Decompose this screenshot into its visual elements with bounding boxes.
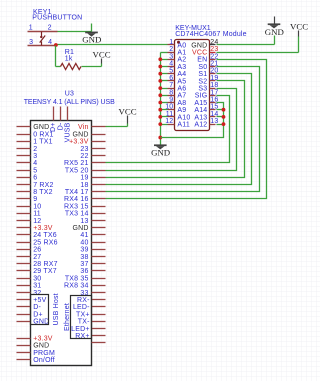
svg-text:A14: A14 (194, 107, 207, 114)
mux left pin 4 A3 (168, 61, 187, 71)
mux right pin 24 GND (191, 39, 218, 49)
U3 right pin TX4 17 (65, 189, 106, 196)
svg-text:5: 5 (33, 167, 37, 174)
svg-text:RX-: RX- (77, 297, 90, 304)
U3 right pin 39 (80, 247, 105, 254)
svg-text:29 TX7: 29 TX7 (33, 268, 57, 275)
mux right pin 14 A13 (194, 111, 218, 121)
Teensy U3 reference labels (24, 90, 115, 106)
svg-text:A15: A15 (194, 100, 207, 107)
wire resistor to VCC (82, 64, 102, 67)
wire button pin4 to mux A0 (node KEY) (56, 44, 168, 46)
U3 right pin RX8 34 (64, 283, 105, 290)
mux right pin 17 SIG (195, 89, 219, 99)
U3 right pin 38 (80, 254, 105, 261)
svg-text:1k: 1k (65, 56, 73, 63)
junction mux pin 9 on ground bus (158, 101, 162, 105)
svg-text:A9: A9 (177, 107, 186, 114)
U3 left pin 28 RX7 (17, 261, 58, 268)
svg-text:4: 4 (169, 61, 173, 68)
svg-text:S1: S1 (198, 71, 207, 78)
U3 left pin PRGM (17, 350, 56, 357)
svg-text:8: 8 (169, 89, 173, 96)
U3 right pin 13 (80, 218, 105, 225)
svg-text:4: 4 (33, 160, 37, 167)
svg-text:TX3 14: TX3 14 (65, 211, 89, 218)
svg-text:5: 5 (169, 68, 173, 75)
wire mux VCC pin23 to VCC (217, 37, 299, 53)
svg-text:2: 2 (33, 146, 37, 153)
svg-text:RX4 16: RX4 16 (64, 196, 89, 203)
mux left pin 1 A0 (168, 39, 187, 49)
U3 left pin 5 (17, 167, 38, 174)
U3 right pin 19 (80, 175, 105, 182)
U3 Ethernet pin TX+ (76, 311, 105, 318)
U3 right pin 36 (80, 268, 105, 275)
wire mux S1 to U3 pin row 8 (106, 74, 252, 185)
wire junction down to resistor R1 (56, 46, 61, 67)
svg-text:A4: A4 (177, 71, 186, 78)
mux right pin 22 EN (197, 53, 218, 63)
ground symbol top right (265, 17, 284, 37)
U3 right pin RX4 16 (64, 196, 105, 203)
mux left pin 7 A6 (168, 82, 187, 92)
U3 left pin 3 (17, 153, 38, 160)
svg-text:PUSHBUTTON: PUSHBUTTON (32, 15, 82, 22)
junction mux pin 11 on ground bus (158, 115, 162, 119)
svg-text:TX5 20: TX5 20 (65, 167, 89, 174)
U3 USB Host sub-box (31, 293, 60, 325)
U3 left pin +3.3V (17, 225, 53, 232)
svg-text:+3.3V: +3.3V (33, 225, 53, 232)
mux KEY-MUX1 reference labels (175, 25, 247, 38)
svg-text:A8: A8 (177, 100, 186, 107)
svg-text:USB Host: USB Host (53, 293, 60, 325)
wire mux S0 to U3 pin row 9 (106, 67, 260, 192)
svg-text:S2: S2 (198, 78, 207, 85)
svg-text:19: 19 (80, 175, 88, 182)
svg-text:U3: U3 (65, 90, 74, 97)
junction mux pin 3 on ground bus (158, 57, 162, 61)
U3 right pin RX5 21 (64, 160, 105, 167)
svg-text:A7: A7 (177, 93, 186, 100)
mux left pin 10 A9 (165, 104, 186, 114)
junction mux pin 12 on ground bus (158, 122, 162, 126)
U3 left pin 25 RX6 (17, 239, 58, 246)
svg-text:A11: A11 (177, 122, 190, 129)
svg-text:+3.3V: +3.3V (69, 139, 89, 146)
svg-text:GND: GND (151, 147, 170, 157)
svg-text:30: 30 (33, 275, 41, 282)
wire mux EN to U3 pin row 10 (106, 60, 267, 199)
svg-text:36: 36 (80, 268, 88, 275)
U3 left pin 6 (17, 175, 38, 182)
svg-text:8 TX2: 8 TX2 (33, 189, 53, 196)
svg-text:1: 1 (169, 39, 173, 46)
pushbutton pin number 2 (48, 25, 52, 32)
mux right pin 18 S3 (198, 82, 218, 92)
U3 left pin 31 (17, 283, 42, 290)
svg-text:RX5 21: RX5 21 (64, 160, 89, 167)
mux right pin 16 A15 (194, 97, 218, 107)
svg-text:24 TX6: 24 TX6 (33, 232, 57, 239)
svg-text:9: 9 (169, 97, 173, 104)
ground symbol below mux (151, 144, 170, 157)
wire mux A15-A12 to ground bus (161, 103, 224, 138)
U3 left pin 24 TX6 (17, 232, 57, 239)
U3 right pin GND (72, 131, 105, 138)
junction mux pin 4 on ground bus (158, 65, 162, 69)
svg-text:38: 38 (80, 254, 88, 261)
svg-text:A3: A3 (177, 64, 186, 71)
U3 left pin 30 (17, 275, 42, 282)
mux left pin 12 A11 (165, 118, 190, 128)
pushbutton pin number 3 (29, 39, 33, 46)
mux left pin 3 A2 (168, 53, 187, 63)
svg-text:18: 18 (80, 182, 88, 189)
U3 top pin D- (57, 107, 64, 131)
junction mux pin 5 on ground bus (158, 72, 162, 76)
svg-text:D-: D- (57, 122, 64, 130)
svg-text:9: 9 (33, 196, 37, 203)
power symbol VCC at resistor (93, 49, 111, 63)
U3 right pin +3.3V (69, 139, 105, 146)
svg-text:6: 6 (169, 75, 173, 82)
junction mux pin 8 on ground bus (158, 93, 162, 97)
power symbol VCC top right (290, 22, 308, 37)
mux left pin 8 A7 (168, 89, 187, 99)
U3 left pin 32 (17, 290, 42, 297)
svg-text:3: 3 (33, 153, 37, 160)
junction A12-A15 wire on ground bus (158, 136, 162, 140)
svg-text:13: 13 (80, 218, 88, 225)
U3 left pin 8 TX2 (17, 189, 53, 196)
mux KEY-MUX1 body (175, 40, 210, 131)
svg-text:7 RX2: 7 RX2 (33, 182, 53, 189)
svg-text:RX3 15: RX3 15 (64, 203, 89, 210)
U3 left pin 7 RX2 (17, 182, 54, 189)
U3 left pin 26 (17, 247, 42, 254)
svg-text:Ethernet: Ethernet (64, 303, 71, 331)
U3 USB Host pin +5V (17, 297, 47, 304)
wire button pin2 to GND (58, 24, 92, 32)
svg-text:D+: D+ (33, 311, 43, 318)
svg-text:1: 1 (29, 25, 33, 32)
junction mux pin 14 (222, 115, 226, 119)
svg-text:SIG: SIG (195, 93, 208, 100)
svg-text:GND: GND (82, 35, 101, 45)
U3 left pin On/Off (17, 357, 55, 364)
U3 USB Host pin D- (17, 304, 42, 311)
U3 Ethernet pin RX- (77, 297, 105, 304)
U3 right pin 41 (80, 232, 105, 239)
svg-text:GND: GND (33, 124, 49, 131)
mux left pin 5 A4 (168, 68, 187, 78)
mux left pin 6 A5 (168, 75, 187, 85)
U3 Ethernet pin TX- (78, 319, 106, 326)
U3 right pin 40 (80, 239, 105, 246)
mux right pin 13 A12 (194, 118, 218, 128)
wire mux S3 to U3 pin row 6 (106, 89, 237, 171)
svg-text:41: 41 (80, 232, 88, 239)
svg-text:32: 32 (33, 290, 41, 297)
mux left pin 2 A1 (168, 46, 187, 56)
svg-text:12: 12 (33, 218, 41, 225)
Teensy U3 body (31, 121, 92, 366)
pushbutton KEY1 symbol (28, 32, 58, 46)
wire mux GND pin24 to ground (217, 36, 275, 45)
svg-text:3: 3 (169, 53, 173, 60)
U3 right pin 23 (80, 146, 105, 153)
mux right pin 20 S1 (198, 68, 218, 78)
svg-text:37: 37 (80, 261, 88, 268)
U3 right pin TX8 35 (65, 275, 106, 282)
svg-text:22: 22 (80, 153, 88, 160)
svg-text:RX8 34: RX8 34 (64, 283, 89, 290)
svg-text:A12: A12 (194, 122, 207, 129)
U3 left pin 4 (17, 160, 38, 167)
svg-text:39: 39 (80, 247, 88, 254)
svg-text:25 RX6: 25 RX6 (33, 239, 58, 246)
svg-text:LED+: LED+ (71, 326, 90, 333)
junction mux pin 10 on ground bus (158, 108, 162, 112)
U3 right pin 22 (80, 153, 105, 160)
mux right pin 19 S2 (198, 75, 218, 85)
U3 top pin D+ (50, 107, 57, 133)
junction mux pin 13 (222, 122, 226, 126)
U3 left pin +3.3V (17, 336, 53, 343)
svg-text:VCC: VCC (290, 22, 308, 32)
U3 Ethernet pin RX+ (75, 333, 105, 340)
svg-text:S3: S3 (198, 86, 207, 93)
wire U3 Vin to VCC (106, 124, 128, 127)
U3 left pin 2 (17, 146, 38, 153)
svg-text:2: 2 (169, 46, 173, 53)
U3 right pin RX3 15 (64, 203, 105, 210)
U3 USB Host pin D+ (17, 311, 43, 318)
svg-text:A1: A1 (177, 50, 186, 57)
svg-text:6: 6 (33, 175, 37, 182)
svg-text:TX+: TX+ (76, 311, 90, 318)
resistor R1 (61, 63, 82, 69)
mux left pin 9 A8 (168, 97, 187, 107)
U3 left pin 10 (17, 203, 42, 210)
junction at button pin4 (54, 43, 58, 47)
mux right pin 15 A14 (194, 104, 218, 114)
mux right pin 23 VCC (192, 46, 218, 56)
power symbol VCC at U3 Vin (119, 107, 137, 124)
svg-text:23: 23 (80, 146, 88, 153)
svg-text:GND: GND (265, 27, 284, 37)
U3 right unlabeled pin (92, 342, 106, 344)
U3 Ethernet pin LED- (73, 304, 106, 311)
U3 left pin 27 (17, 254, 42, 261)
svg-text:S0: S0 (198, 64, 207, 71)
U3 left pin 11 (17, 211, 41, 218)
U3 USB Host pin GND (17, 319, 50, 326)
svg-text:GND: GND (33, 343, 49, 350)
mux left pin 11 A10 (166, 111, 191, 121)
svg-text:VCC: VCC (192, 50, 207, 57)
U3 left pin 12 (17, 218, 42, 225)
U3 left pin 0 RX1 (17, 131, 54, 138)
U3 left pin 1 TX1 (17, 139, 53, 146)
U3 left pin GND (17, 124, 50, 131)
svg-text:40: 40 (80, 239, 88, 246)
svg-text:Vin: Vin (78, 124, 89, 131)
svg-text:GND: GND (72, 131, 88, 138)
svg-text:GND: GND (72, 225, 88, 232)
svg-text:26: 26 (33, 247, 41, 254)
svg-text:A5: A5 (177, 78, 186, 85)
svg-text:2: 2 (48, 25, 52, 32)
pushbutton pin number 4 (48, 39, 52, 46)
svg-text:CD74HC4067 Module: CD74HC4067 Module (175, 31, 247, 38)
U3 right pin Vin (78, 124, 105, 131)
svg-text:VCC: VCC (93, 49, 111, 59)
svg-text:28 RX7: 28 RX7 (33, 261, 58, 268)
U3 top pin VUSB (65, 107, 72, 143)
svg-text:31: 31 (33, 283, 41, 290)
U3 right pin TX5 20 (65, 167, 106, 174)
resistor R1 value labels (65, 49, 74, 63)
U3 right pin 33 (80, 290, 105, 297)
svg-text:On/Off: On/Off (33, 357, 55, 364)
svg-text:A6: A6 (177, 86, 186, 93)
svg-text:3: 3 (29, 39, 33, 46)
pushbutton pin number 1 (29, 25, 33, 32)
wire mux A1-A11 ground bus (161, 53, 168, 145)
svg-text:GND: GND (191, 42, 207, 49)
svg-text:EN: EN (197, 57, 207, 64)
svg-text:11: 11 (33, 211, 41, 218)
U3 Ethernet sub-box (64, 296, 91, 339)
U3 right pin TX3 14 (65, 211, 106, 218)
junction mux pin 15 (222, 108, 226, 112)
U3 right pin GND (72, 225, 105, 232)
svg-text:TEENSY 4.1 (ALL PINS) USB: TEENSY 4.1 (ALL PINS) USB (24, 99, 115, 106)
svg-text:1 TX1: 1 TX1 (33, 139, 53, 146)
U3 right pin 37 (80, 261, 105, 268)
svg-text:A2: A2 (177, 57, 186, 64)
wire mux SIG to U3 pin row 5 (106, 96, 230, 163)
svg-text:7: 7 (169, 82, 173, 89)
ground symbol at button (82, 32, 101, 45)
svg-text:PRGM: PRGM (33, 350, 55, 357)
svg-text:+5V: +5V (33, 297, 46, 304)
svg-text:4: 4 (48, 39, 52, 46)
svg-text:VCC: VCC (119, 107, 137, 117)
svg-text:10: 10 (33, 203, 41, 210)
svg-text:27: 27 (33, 254, 41, 261)
svg-text:+3.3V: +3.3V (33, 336, 53, 343)
svg-text:TX-: TX- (78, 319, 90, 326)
mux right pin 21 S0 (198, 61, 218, 71)
svg-text:0 RX1: 0 RX1 (33, 131, 53, 138)
U3 Ethernet pin LED+ (71, 326, 105, 333)
svg-text:TX4 17: TX4 17 (65, 189, 89, 196)
U3 left pin 29 TX7 (17, 268, 57, 275)
junction mux pin 6 on ground bus (158, 79, 162, 83)
svg-text:LED-: LED- (73, 304, 90, 311)
svg-text:A13: A13 (194, 114, 207, 121)
svg-text:A10: A10 (177, 114, 190, 121)
junction mux pin 7 on ground bus (158, 86, 162, 90)
U3 left pin 9 (17, 196, 38, 203)
pushbutton KEY1 labels (32, 9, 82, 21)
svg-text:D-: D- (33, 304, 41, 311)
U3 right pin 18 (80, 182, 105, 189)
wire mux S2 to U3 pin row 7 (106, 81, 245, 178)
U3 left pin GND (17, 343, 50, 350)
svg-text:TX8 35: TX8 35 (65, 275, 89, 282)
svg-text:A0: A0 (177, 42, 186, 49)
